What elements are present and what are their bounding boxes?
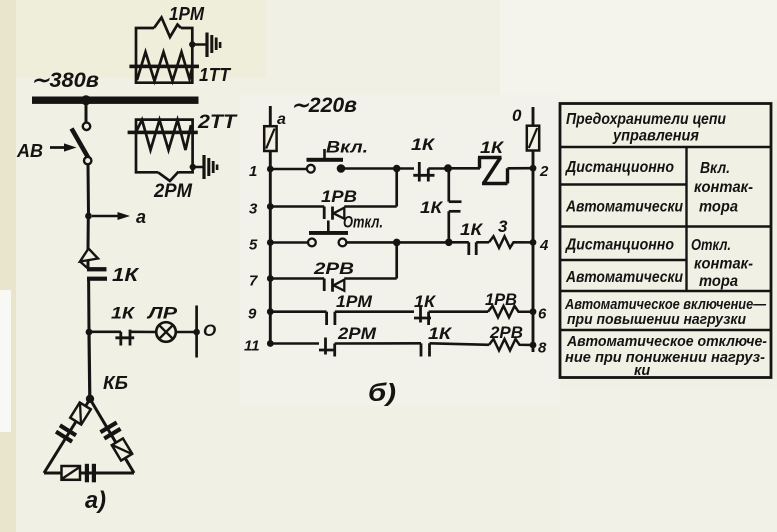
svg-text:а: а [277, 111, 286, 128]
rung7 wire [270, 277, 324, 280]
svg-text:Автоматически: Автоматически [565, 199, 683, 216]
svg-text:1К: 1К [111, 304, 136, 323]
label KB [103, 373, 128, 393]
svg-text:2РМ: 2РМ [153, 181, 193, 202]
label 1K (main contact) [112, 265, 140, 285]
svg-text:∼220в: ∼220в [291, 94, 357, 117]
ground of 1TT secondary [189, 33, 221, 58]
label 2TT [197, 112, 238, 133]
delta apex node [86, 395, 94, 403]
rung1 wire to 1K contact [341, 167, 414, 170]
svg-text:ЛР: ЛР [145, 304, 177, 323]
svg-text:О: О [203, 321, 216, 340]
svg-text:2: 2 [539, 163, 549, 180]
wire node a to contactor [87, 216, 90, 249]
wire bus to node a [87, 164, 91, 216]
svg-text:управления: управления [612, 128, 699, 145]
svg-text:2РВ: 2РВ [489, 323, 523, 342]
label ~380v [31, 69, 99, 92]
junction node rung1 [444, 164, 480, 172]
label Vkl [326, 138, 368, 157]
left rail phase a [270, 106, 286, 345]
svg-text:Предохранители цепи: Предохранители цепи [566, 111, 726, 128]
contact 1K (lamp branch) [115, 330, 156, 346]
svg-text:∼380в: ∼380в [31, 69, 99, 92]
svg-text:тора: тора [699, 273, 738, 290]
svg-text:1К: 1К [428, 324, 453, 343]
svg-text:а: а [136, 207, 146, 227]
node 8 [530, 340, 547, 357]
capacitor C2 (right leg) [99, 421, 121, 441]
label Otkl [343, 213, 383, 232]
label 2RV (rung7) [313, 259, 354, 278]
svg-text:б): б) [368, 379, 396, 407]
table cell Vkl kontaktora [694, 160, 753, 216]
svg-text:8: 8 [538, 340, 547, 357]
contact 2RM (rung11) [319, 338, 421, 357]
table header text [566, 111, 726, 145]
svg-text:11: 11 [244, 338, 260, 355]
label b) [368, 379, 396, 407]
node 4 [530, 237, 549, 254]
self-hold contact 1K (vertical) [449, 168, 462, 242]
label a) [85, 487, 106, 514]
delta bottom leg wire [44, 472, 134, 475]
svg-text:2ТТ: 2ТТ [197, 112, 238, 133]
fuse Pr2 (right rail) [527, 126, 539, 151]
svg-text:1: 1 [249, 163, 257, 180]
svg-text:5: 5 [249, 237, 258, 254]
CT box 1TT with relay winding 1RM [129, 18, 199, 83]
node 1 [249, 163, 274, 180]
table row2 left: Avtomaticheski [565, 199, 683, 216]
rung3 wire [270, 205, 324, 208]
time contact 2RV (rung7) [324, 279, 397, 292]
CT box 2TT with relay winding 2RM [128, 120, 198, 181]
table row6: automatic switch-off [565, 334, 767, 379]
svg-text:9: 9 [248, 306, 257, 323]
label 1TT [199, 65, 232, 85]
ground of 2TT secondary [190, 155, 219, 179]
svg-text:1К: 1К [414, 292, 437, 311]
label 1K (rung11) [428, 324, 453, 343]
svg-text:7: 7 [249, 273, 258, 290]
label 1RV (coil rung9) [485, 290, 517, 309]
label 1K (vertical contact) [420, 198, 444, 217]
contact 1K (rung5) [449, 242, 489, 255]
fuse Pr1 (left rail) [264, 126, 276, 151]
contact 1RM (rung9) [327, 312, 414, 325]
node 11 [244, 338, 274, 355]
contact 1K (rung9) [414, 306, 488, 326]
svg-text:1ТТ: 1ТТ [199, 65, 232, 85]
svg-text:3: 3 [249, 201, 258, 218]
svg-text:Вкл.: Вкл. [326, 138, 368, 157]
delta left leg wire [44, 399, 90, 473]
svg-text:АВ: АВ [16, 141, 43, 161]
svg-text:КБ: КБ [103, 373, 128, 393]
node 7 [249, 273, 274, 290]
label 2RV (coil rung11) [489, 323, 523, 342]
svg-text:1К: 1К [480, 138, 505, 157]
svg-text:1РВ: 1РВ [485, 290, 517, 309]
svg-text:Откл.: Откл. [691, 237, 731, 254]
svg-text:2РВ: 2РВ [313, 259, 354, 278]
delta right leg wire [90, 399, 134, 473]
svg-text:1РМ: 1РМ [336, 292, 373, 311]
svg-text:Автоматическое включение—: Автоматическое включение— [564, 297, 766, 313]
label 1K (rung9) [414, 292, 437, 311]
node 3 [249, 201, 274, 218]
rung5 wire to riser [346, 239, 400, 247]
svg-text:Автоматически: Автоматически [565, 269, 683, 286]
label 3 (resistor) [498, 217, 508, 236]
table row5: automatic switch-on [564, 297, 766, 328]
contactor main contact 1K [80, 247, 107, 333]
svg-text:при повышении нагрузки: при повышении нагрузки [567, 312, 746, 328]
label ~220v [291, 94, 357, 117]
label 1K (rung1 contact) [411, 135, 436, 154]
button Vkl [307, 149, 346, 173]
label 1K (rung5 contact) [460, 220, 484, 239]
riser rung3 to rung1 [393, 165, 401, 207]
riser rung5 to rung7 [395, 242, 398, 278]
right rail O [512, 106, 533, 352]
svg-text:Дистанционно: Дистанционно [564, 159, 674, 176]
svg-text:2РМ: 2РМ [337, 324, 377, 343]
svg-text:Вкл.: Вкл. [700, 160, 730, 177]
svg-text:ки: ки [634, 363, 650, 379]
label 2RM [153, 181, 193, 202]
contact 1K (rung1) [413, 162, 445, 182]
fuse F1 (left leg) [70, 402, 91, 424]
svg-text:Автоматическое отключе-: Автоматическое отключе- [566, 334, 767, 350]
svg-text:6: 6 [538, 306, 547, 323]
wire to capacitor bank [87, 332, 91, 398]
label 1RM (rung9) [336, 292, 373, 311]
rung11 wire [270, 342, 319, 345]
svg-text:контак-: контак- [694, 179, 753, 196]
svg-text:тора: тора [699, 199, 738, 216]
node 9 [248, 306, 274, 323]
time contact 1RV (rung3) [324, 207, 397, 220]
svg-text:4: 4 [539, 237, 549, 254]
node 2 [530, 163, 549, 180]
lamp LR [156, 322, 195, 342]
coil 1K contactor [478, 158, 533, 184]
svg-text:Откл.: Откл. [343, 213, 383, 232]
resistor 3 [489, 236, 533, 248]
table row1 left: Distantsionno [564, 159, 674, 176]
contact 1K (rung11) [421, 343, 489, 356]
svg-text:Дистанционно: Дистанционно [564, 237, 674, 254]
svg-text:0: 0 [512, 106, 522, 125]
label 2RM (rung11) [337, 324, 377, 343]
rung1 wire from node1 [270, 168, 307, 171]
svg-text:1К: 1К [411, 135, 436, 154]
label 1K (coil) [480, 138, 505, 157]
rung5 wire to 1K junction [397, 239, 453, 247]
coil 1RV (rung9) [488, 306, 533, 318]
svg-text:1РВ: 1РВ [321, 187, 357, 206]
table cell Otkl kontaktora [691, 237, 753, 290]
node 5 [249, 237, 274, 254]
label 1K (lamp branch) [111, 304, 136, 323]
table row3 left: Distantsionno [564, 237, 674, 254]
rung5 wire [270, 241, 308, 244]
capacitor C3 (bottom leg) [85, 464, 96, 483]
svg-text:3: 3 [498, 217, 508, 236]
node O (power) [193, 306, 216, 358]
svg-text:ние при понижении нагруз-: ние при понижении нагруз- [565, 350, 765, 366]
node 6 [530, 306, 547, 323]
node a [85, 207, 146, 227]
fuse F2 (right leg) [112, 438, 132, 460]
svg-text:1К: 1К [460, 220, 484, 239]
label 1RM [169, 4, 205, 24]
svg-text:1К: 1К [420, 198, 444, 217]
label LR [145, 304, 177, 323]
bus 380V [32, 95, 199, 105]
svg-text:а): а) [85, 487, 106, 514]
table frame [560, 104, 771, 378]
svg-text:контак-: контак- [694, 256, 753, 273]
label 1RV [321, 187, 357, 206]
rung9 wire [270, 310, 326, 313]
lamp branch wire [89, 330, 121, 333]
table row4 left: Avtomaticheski [565, 269, 683, 286]
capacitor C1 (left leg) [55, 424, 77, 444]
breaker AB [72, 103, 92, 164]
coil 2RV (rung11) [489, 339, 533, 351]
fuse F3 (bottom leg) [62, 466, 81, 480]
button Otkl [308, 221, 348, 247]
junction to lamp branch [86, 329, 93, 336]
svg-text:1К: 1К [112, 265, 140, 285]
label AB with arrow [16, 141, 77, 161]
svg-text:1РМ: 1РМ [169, 4, 205, 24]
